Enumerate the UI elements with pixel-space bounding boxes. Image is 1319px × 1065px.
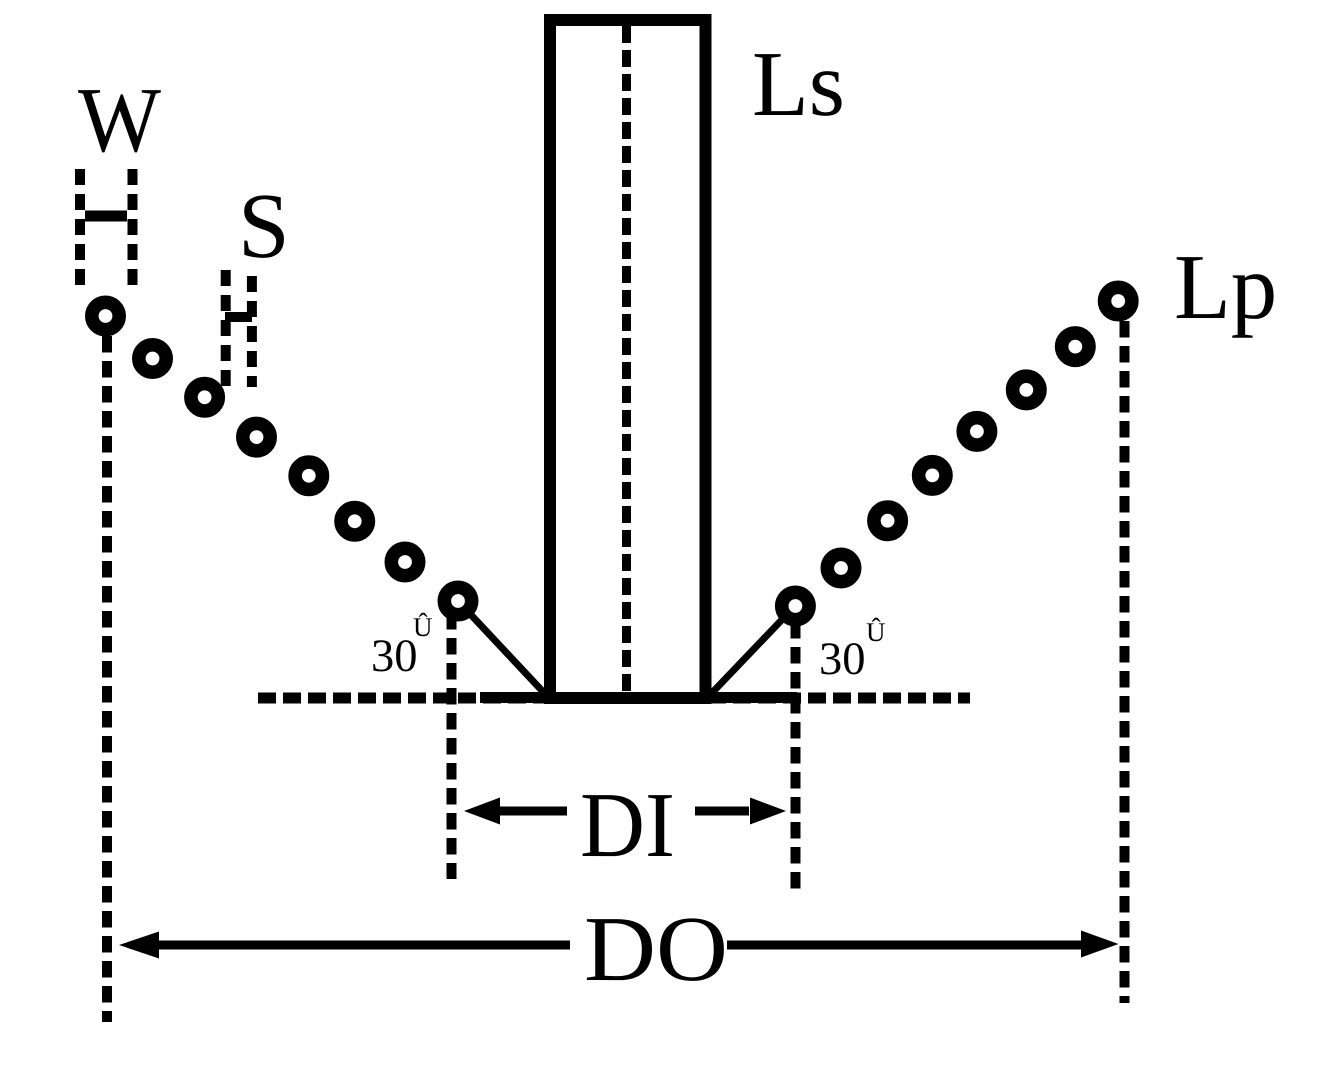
svg-text:DO: DO <box>584 898 728 1001</box>
svg-text:30: 30 <box>371 631 418 682</box>
right parasitic element circle 5 <box>963 418 990 445</box>
DI arrow right <box>695 798 786 825</box>
DO arrow right <box>727 931 1119 958</box>
right parasitic element circle 7 <box>1062 333 1089 360</box>
right parasitic element circle 3 <box>874 507 901 534</box>
tick S <box>225 312 252 322</box>
right parasitic element circle 6 <box>1013 376 1040 403</box>
dimension line S left <box>221 270 231 387</box>
dimension line W left <box>75 169 85 290</box>
DO arrow left <box>119 932 570 959</box>
left parasitic element circle 6 <box>341 508 368 535</box>
left parasitic element circle 2 <box>139 345 166 372</box>
vertical dashed extension line right DI <box>791 622 801 892</box>
vertical dashed extension line right DO (Lp) <box>1120 321 1130 1003</box>
svg-text:Lp: Lp <box>1174 236 1277 339</box>
base plate <box>480 692 797 703</box>
dimension line S right <box>247 276 257 387</box>
svg-text:S: S <box>238 175 290 278</box>
diagonal wire left 30deg <box>458 601 547 696</box>
monopole stub Ls rectangle <box>550 20 706 698</box>
diagonal wire right 30deg <box>709 606 795 696</box>
svg-text:Û: Û <box>413 612 433 642</box>
tick W <box>85 211 127 222</box>
vertical dashed extension line left DO <box>102 336 112 1022</box>
left parasitic element circle 3 <box>191 384 218 411</box>
svg-text:W: W <box>78 69 161 172</box>
svg-text:30: 30 <box>819 634 866 685</box>
DI arrow left <box>464 798 567 825</box>
right parasitic element circle 4 <box>919 462 946 489</box>
left parasitic element circle 4 <box>243 423 270 450</box>
ground plane dashed line <box>258 693 970 704</box>
right parasitic element circle 2 <box>827 554 854 581</box>
left parasitic element circle 1 <box>92 302 119 329</box>
svg-text:Ls: Ls <box>752 33 845 136</box>
left parasitic element circle 5 <box>295 462 322 489</box>
svg-text:DI: DI <box>580 774 675 877</box>
right parasitic element circle 8 <box>1105 287 1132 314</box>
left parasitic element circle 8 <box>444 587 471 614</box>
vertical dashed extension line left DI <box>447 613 457 879</box>
right parasitic element circle 1 <box>782 592 809 619</box>
left parasitic element circle 7 <box>391 548 418 575</box>
svg-text:Û: Û <box>866 617 886 647</box>
dimension line W right <box>128 169 138 290</box>
stub centerline dashed <box>622 26 631 692</box>
